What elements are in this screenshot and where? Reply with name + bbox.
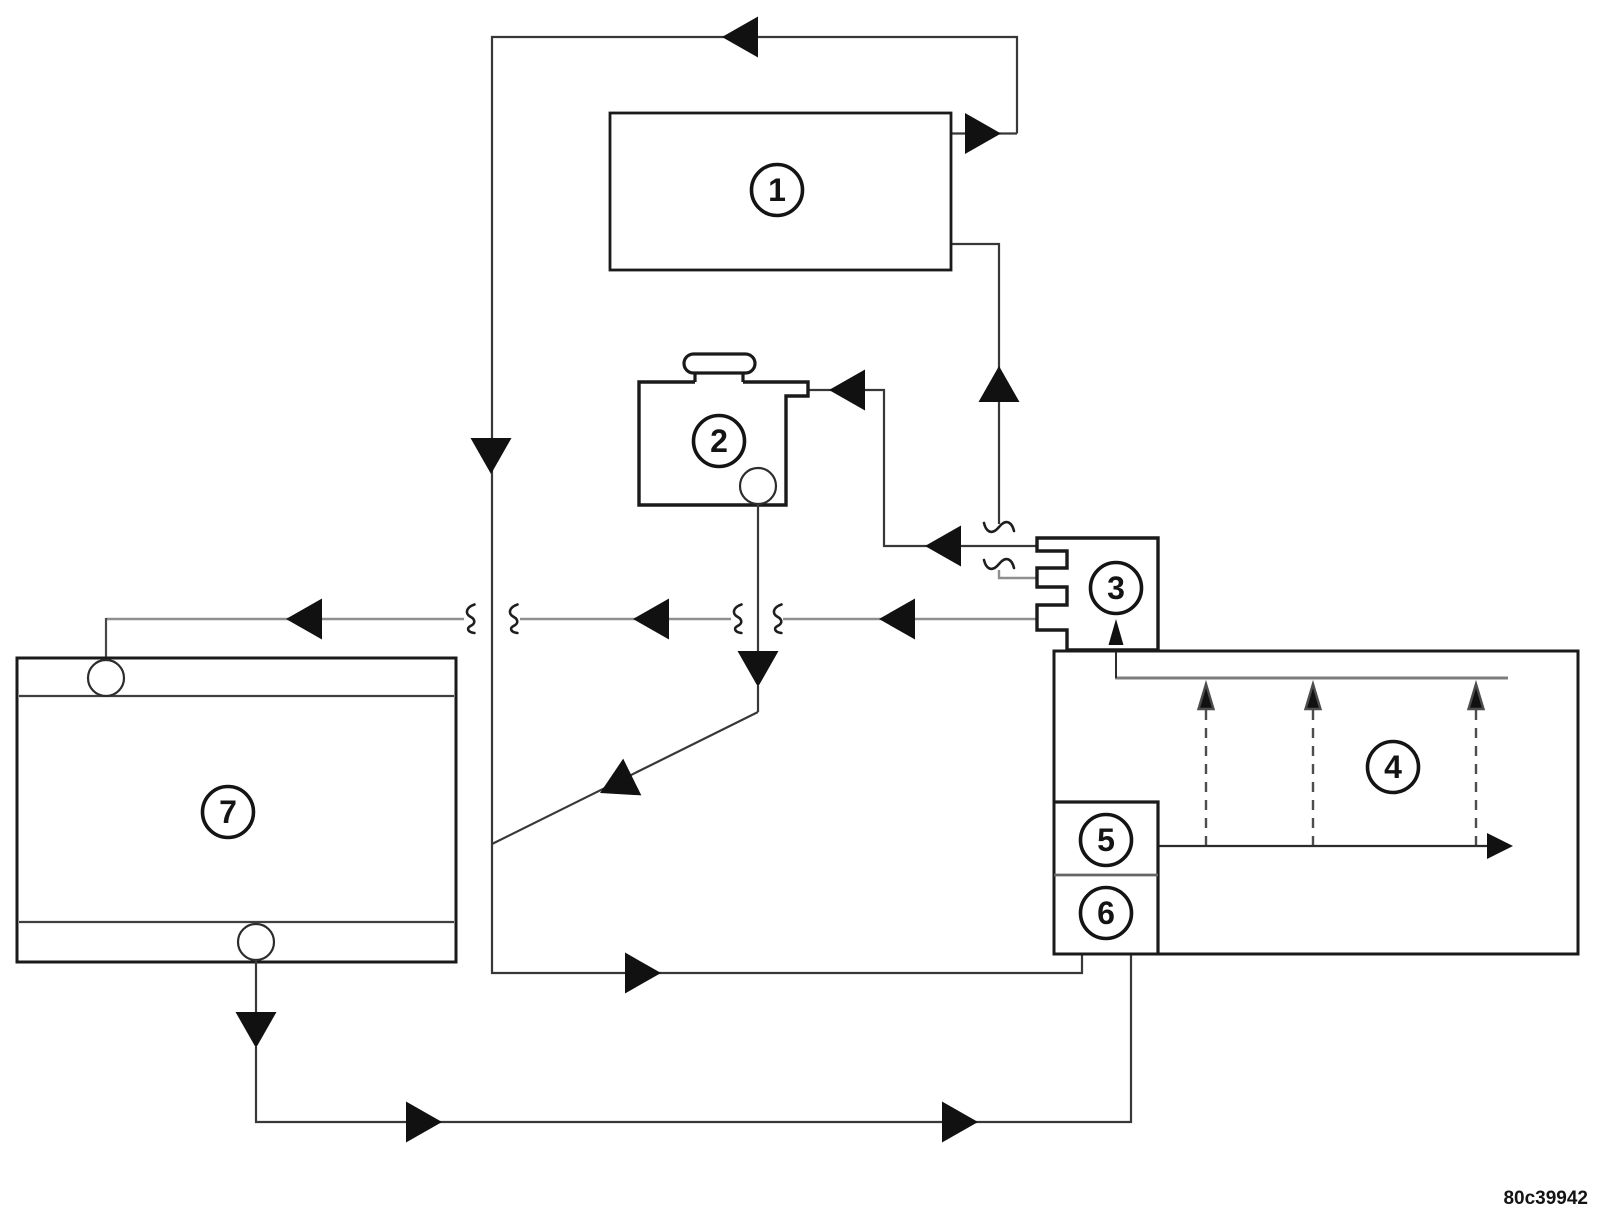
radiator inlet port circle <box>88 660 124 696</box>
wire diagonal drain to left vertical <box>492 712 758 844</box>
wire stub to pump port 2 <box>999 570 1036 578</box>
plate line inside box 4 <box>1115 677 1508 680</box>
hose break squiggle lower on return drop <box>984 559 1014 569</box>
callout circle 3 <box>1091 563 1142 614</box>
wire long lower hose (pump to radiator top) <box>106 618 1037 620</box>
dashed heat arrow 3 <box>1469 684 1484 846</box>
flow arrow left on pump-to-reservoir hose <box>925 526 961 567</box>
flow arrow left on lower hose (middle) <box>633 599 669 640</box>
callout circle 4 <box>1368 742 1419 793</box>
wire hose to reservoir (upper) <box>808 390 1036 546</box>
box 1 (engine) <box>610 113 951 270</box>
wire radiator outlet drain <box>256 940 1131 1122</box>
flow arrow right on thermostat line <box>1487 833 1513 859</box>
svg-text:4: 4 <box>1384 749 1402 785</box>
flow arrow left on lower hose (near radiator) <box>286 599 322 640</box>
dashed heat arrow 1 <box>1199 684 1214 846</box>
radiator outlet port circle <box>238 924 274 960</box>
hose break squiggle right pair A <box>734 605 742 634</box>
callout circle 2 <box>694 416 745 467</box>
wire box1 outlet <box>951 132 1017 134</box>
wire thermostat flow line <box>1158 845 1488 847</box>
divider between 5 and 6 <box>1054 874 1158 877</box>
hose break squiggle left pair A <box>467 605 475 634</box>
svg-text:80c39942: 80c39942 <box>1503 1188 1588 1209</box>
wire reservoir drain down <box>757 504 759 712</box>
radiator lower tank line <box>19 921 454 923</box>
flow arrow down on reservoir drain <box>738 651 779 687</box>
box 5 (thermostat) <box>1054 802 1158 954</box>
svg-text:6: 6 <box>1097 895 1115 931</box>
box 2 (coolant reservoir) <box>639 382 808 505</box>
flow arrow left on top wire <box>722 17 758 58</box>
flow arrow up on return drop <box>979 366 1020 402</box>
flow arrow right on bottom hose (right) <box>942 1102 978 1143</box>
flow arrow right at box1 outlet <box>965 113 1001 154</box>
reservoir drain port circle <box>740 468 776 504</box>
reservoir neck <box>695 373 743 382</box>
box 7 (radiator) <box>17 658 456 962</box>
svg-text:1: 1 <box>768 172 786 208</box>
flow arrow on diagonal drain <box>591 759 641 812</box>
callout circle 6 <box>1081 888 1132 939</box>
hose break squiggle upper on return drop <box>984 522 1014 532</box>
callout circle 5 <box>1081 815 1132 866</box>
wire top loop (engine outlet to left down-pipe) <box>492 37 1082 973</box>
flow arrow right on bottom return wire <box>625 953 661 994</box>
component 3 (water pump, castellated housing) <box>1037 538 1158 650</box>
hose break squiggle left pair B <box>510 605 518 634</box>
wire box1 return drop <box>951 244 999 524</box>
flow arrow down on radiator drain <box>236 1012 277 1048</box>
hose break squiggle right pair B <box>774 605 782 634</box>
wire radiator inlet riser <box>105 618 107 661</box>
wire riser from plate to pump <box>1115 645 1117 678</box>
svg-text:7: 7 <box>219 794 237 830</box>
flow arrow right on bottom hose (left) <box>406 1102 442 1143</box>
callout circle 7 <box>203 787 254 838</box>
svg-text:2: 2 <box>710 423 728 459</box>
reservoir cap <box>684 354 755 373</box>
flow arrow down on left vertical wire <box>471 438 512 474</box>
svg-text:5: 5 <box>1097 822 1115 858</box>
flow arrow left into reservoir <box>829 370 865 411</box>
box 4 (engine block / heat source) <box>1054 651 1578 954</box>
radiator upper tank line <box>19 695 454 697</box>
dashed heat arrow 2 <box>1306 684 1321 846</box>
flow arrow up into pump <box>1109 619 1124 645</box>
callout circle 1 <box>752 165 803 216</box>
svg-text:3: 3 <box>1107 570 1125 606</box>
flow arrow left on lower hose (near pump) <box>879 599 915 640</box>
